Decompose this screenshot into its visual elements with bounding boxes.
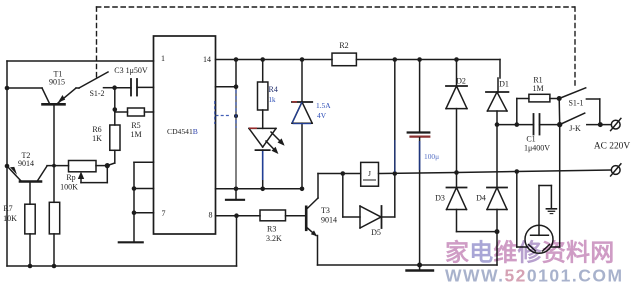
switch S1-1 [559, 88, 600, 125]
relay J coil [361, 162, 379, 186]
svg-text:100μ: 100μ [424, 152, 439, 161]
diode D5 [343, 174, 395, 229]
transistor T1 9015 [7, 88, 79, 202]
svg-text:J-K: J-K [569, 124, 581, 133]
transistor T3 9014 [306, 174, 318, 266]
svg-text:T3: T3 [321, 206, 330, 215]
wire: left rail [6, 61, 8, 266]
wire: mid bus right of IC [216, 188, 303, 190]
wire: x236 branch to IC stub [216, 60, 237, 189]
svg-text:1: 1 [161, 54, 165, 63]
zener diode [292, 60, 312, 189]
resistor R4 [258, 60, 268, 129]
svg-text:1.5A: 1.5A [316, 101, 331, 110]
wire: top bus pin14 to R2 [216, 59, 333, 61]
dashed control-link border [97, 7, 576, 85]
terminal AC phi-1 [611, 118, 621, 130]
svg-text:R4: R4 [269, 85, 278, 94]
switch S1-2 [79, 72, 115, 88]
ground (main) [407, 265, 434, 271]
svg-text:9014: 9014 [321, 216, 337, 225]
diode D1 [486, 60, 508, 125]
diode D4 [487, 125, 507, 265]
op-amp U1: IC CD4541B box [154, 36, 216, 234]
svg-text:3.2K: 3.2K [266, 234, 282, 243]
wire: top-left to IC pin1 [7, 60, 154, 62]
wire: bottom-left rail [7, 265, 237, 267]
relay contact J-K [560, 113, 612, 125]
red pen marks [249, 102, 297, 128]
svg-text:D1: D1 [499, 80, 509, 89]
svg-text:R3: R3 [267, 225, 276, 234]
wire: junction down to R5/R6 [114, 88, 116, 125]
wire: pin8 to R3 [216, 216, 261, 266]
svg-text:7: 7 [162, 209, 166, 218]
svg-text:100K: 100K [60, 183, 78, 192]
svg-text:R2: R2 [339, 41, 348, 50]
ground (mid bus) [226, 189, 244, 200]
node: C3/R5 junction [112, 85, 117, 90]
wire: bottom-right rail [318, 264, 498, 266]
wire: D5 supply riser [394, 60, 396, 174]
svg-text:10K: 10K [3, 214, 17, 223]
resistor R3 3.2K [260, 210, 306, 221]
svg-text:9015: 9015 [49, 78, 65, 87]
svg-text:D5: D5 [371, 228, 381, 237]
diode D3 [447, 173, 498, 232]
node: rail-T1 junction [5, 86, 10, 91]
svg-text:1K: 1K [92, 134, 102, 143]
resistor R5 1M [115, 108, 154, 116]
transistor T2 9014 [7, 166, 47, 204]
watermark [445, 239, 624, 286]
potentiometer Rp 100K [47, 161, 107, 183]
blue pen annotations (lines) [215, 90, 420, 180]
svg-text:1μ400V: 1μ400V [524, 144, 550, 153]
svg-text:S1-1: S1-1 [568, 99, 583, 108]
svg-text:CD4541B: CD4541B [167, 127, 198, 136]
svg-text:D3: D3 [435, 194, 445, 203]
svg-text:R6: R6 [92, 125, 101, 134]
svg-text:WWW.520101.COM: WWW.520101.COM [445, 266, 624, 286]
svg-text:R7: R7 [3, 204, 12, 213]
svg-text:4V: 4V [317, 111, 327, 120]
capacitor C3 [115, 79, 154, 96]
svg-text:1M: 1M [532, 84, 543, 93]
svg-text:8: 8 [209, 211, 213, 220]
svg-text:AC 220V: AC 220V [594, 142, 630, 152]
svg-text:D4: D4 [476, 194, 486, 203]
capacitor C2 [408, 60, 430, 266]
svg-text:C3 1μ50V: C3 1μ50V [114, 66, 148, 75]
svg-text:D2: D2 [456, 77, 466, 86]
resistor R1 1M [517, 94, 559, 124]
capacitor C1 [497, 114, 560, 135]
svg-text:S1-2: S1-2 [89, 89, 104, 98]
resistor (T1 base, unlabeled) [49, 202, 59, 266]
node: Rp right junction [105, 163, 110, 168]
LED [249, 128, 285, 188]
svg-text:C1: C1 [526, 135, 535, 144]
ground (IC) [119, 241, 143, 243]
svg-text:J: J [368, 169, 371, 178]
lamp assembly [517, 125, 560, 254]
svg-text:R5: R5 [131, 121, 140, 130]
resistor R7 10K [25, 204, 35, 266]
svg-text:14: 14 [203, 55, 211, 64]
diode D2 [446, 60, 467, 173]
svg-text:家电维修资料网: 家电维修资料网 [445, 239, 614, 267]
wire: mid AC bus T3 collector to terminal [318, 173, 361, 175]
terminal AC phi-2 [611, 164, 621, 176]
svg-text:1M: 1M [130, 130, 141, 139]
svg-text:Rp: Rp [66, 173, 75, 182]
resistor R2 [332, 53, 500, 66]
wire: IC left stubs tied + ground [134, 162, 154, 242]
resistor R6 1K [107, 125, 120, 166]
svg-text:9014: 9014 [18, 159, 34, 168]
node: rail-T2 junction [5, 164, 10, 169]
svg-text:1k: 1k [269, 96, 277, 104]
